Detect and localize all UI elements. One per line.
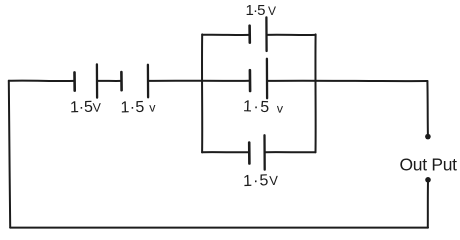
node: output terminal (upper) xyxy=(425,134,431,140)
battery B5 positive plate (tall, bottom branch) xyxy=(263,135,266,169)
battery B5 negative plate (short, bottom branch) xyxy=(248,143,251,164)
wire: parallel box right vertical xyxy=(314,34,316,152)
wire: parallel box left vertical xyxy=(201,34,203,152)
svg-text:1·5 v: 1·5 v xyxy=(243,98,284,116)
svg-text:1·5V: 1·5V xyxy=(243,172,279,190)
wire: top-left horizontal to battery B1 xyxy=(9,80,75,82)
battery B1 negative plate (short) xyxy=(73,72,76,90)
node: output terminal (lower) xyxy=(425,177,431,183)
wire: bottom branch right segment xyxy=(265,151,316,153)
svg-text:1·5 v: 1·5 v xyxy=(120,99,156,117)
wire: between battery B1 and battery B2 xyxy=(97,80,121,82)
wire: lower output terminal down to bottom side xyxy=(427,182,429,228)
battery B2 negative plate (short) xyxy=(120,72,123,90)
battery B3 positive plate (tall, middle branch) xyxy=(266,59,269,98)
wire: bottom branch left segment xyxy=(202,151,249,153)
battery B1 positive plate (tall) xyxy=(96,64,98,97)
wire: battery B2 to middle battery B3 (through parallel box left side) xyxy=(148,80,250,82)
wire: bottom side xyxy=(10,227,428,229)
svg-text:1·5V: 1·5V xyxy=(70,99,102,117)
wire: middle battery B3 to right corner (through parallel box right side) xyxy=(267,80,427,82)
wire: right vertical down to positive output terminal xyxy=(426,81,429,135)
svg-text:1·5 V: 1·5 V xyxy=(246,2,277,19)
wire: top branch left segment xyxy=(202,34,249,36)
battery B4 negative plate (short, top branch) xyxy=(248,26,251,43)
wire: left vertical side xyxy=(9,81,10,228)
battery B3 negative plate (short, middle branch) xyxy=(249,70,252,91)
wire: top branch right segment xyxy=(267,34,316,36)
svg-text:Out Put: Out Put xyxy=(400,155,458,175)
battery B4 positive plate (tall, top branch) xyxy=(265,17,268,51)
battery B2 positive plate (tall) xyxy=(147,65,150,98)
